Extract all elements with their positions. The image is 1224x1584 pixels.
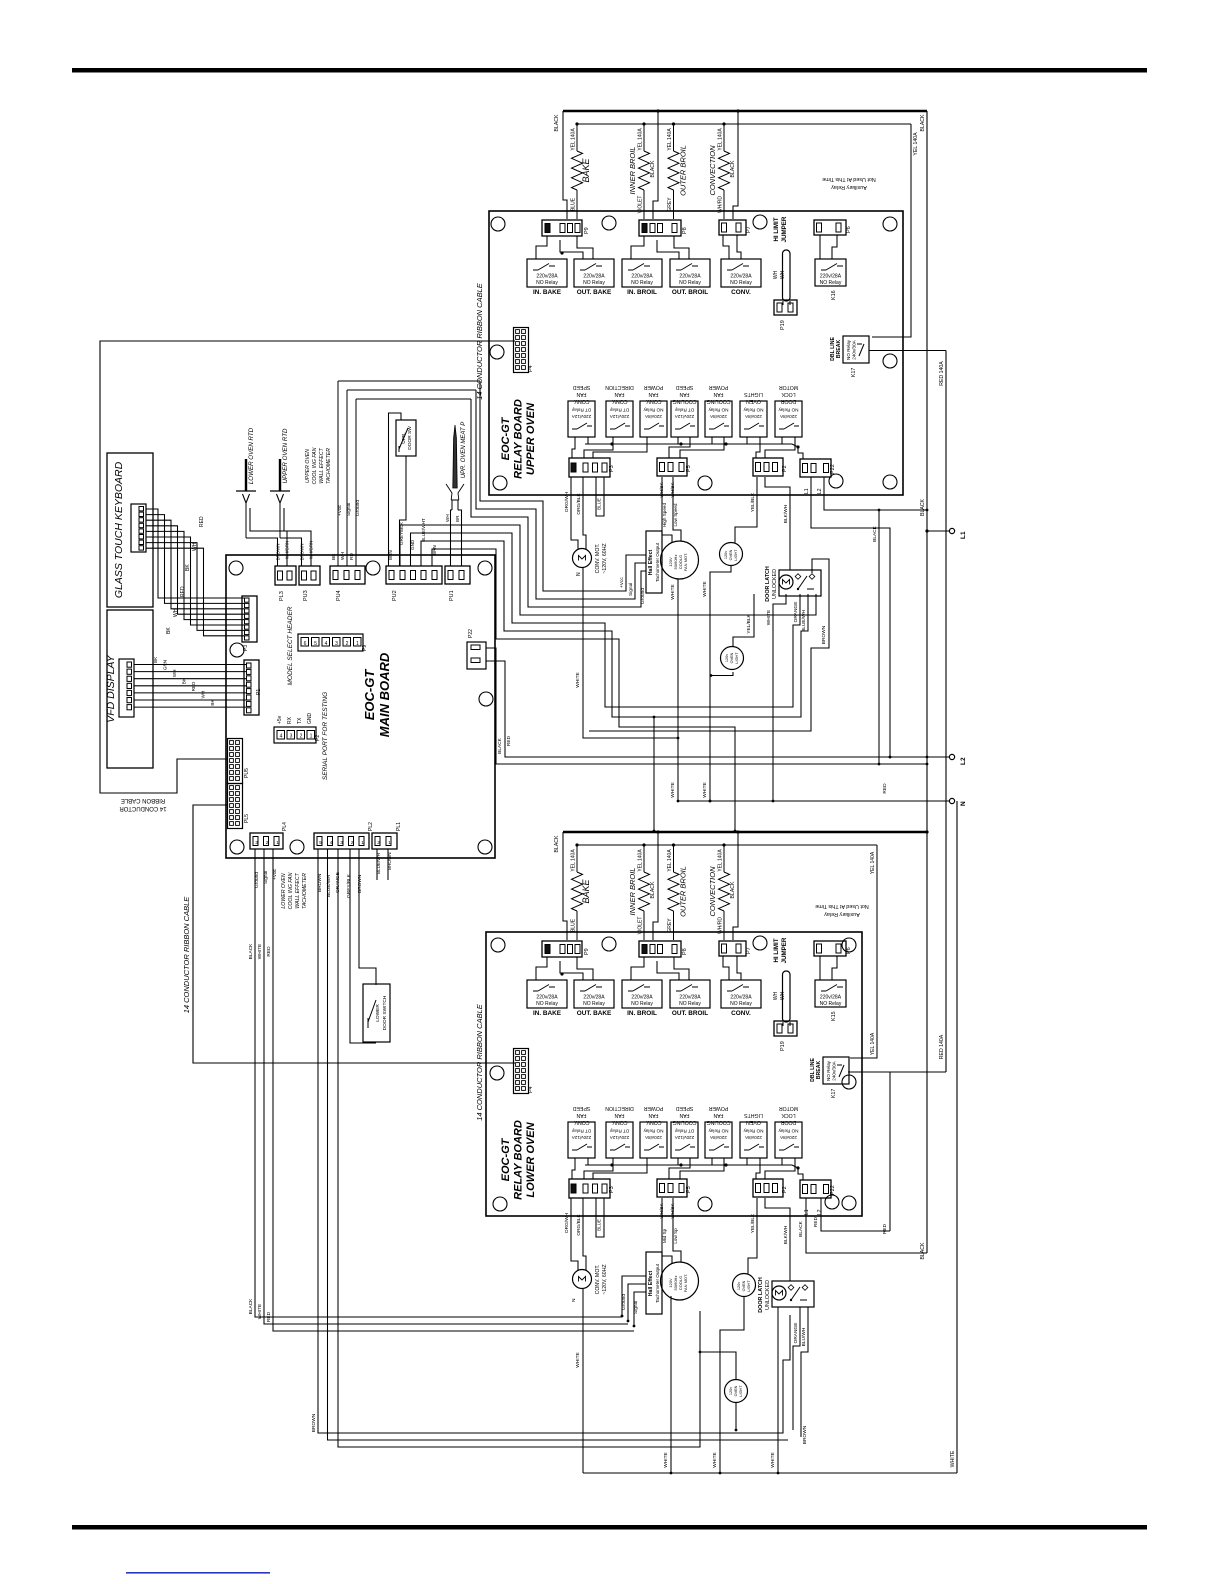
- svg-text:BAKE: BAKE: [581, 157, 591, 182]
- svg-text:Auxiliary Relay: Auxiliary Relay: [824, 911, 860, 917]
- svg-text:FAN: FAN: [576, 1112, 586, 1118]
- wire P22 main red: [486, 661, 949, 757]
- svg-text:WHITE: WHITE: [702, 782, 708, 797]
- svg-text:WHITE: WHITE: [702, 581, 708, 596]
- wire door sw loop: [389, 413, 402, 566]
- wires keyboard to P3 main: [146, 509, 244, 598]
- svg-text:Not Used At This Time: Not Used At This Time: [822, 176, 876, 182]
- svg-text:120v: 120v: [724, 551, 728, 559]
- svg-text:+Vdc: +Vdc: [272, 868, 278, 880]
- svg-text:MOTOR: MOTOR: [779, 384, 798, 390]
- relay COOLING FAN POWER (upper): [705, 401, 732, 437]
- svg-text:P3: P3: [243, 645, 249, 651]
- svg-text:UNLOCKED: UNLOCKED: [765, 1280, 771, 1310]
- hi limit jumper bar (upper): [783, 250, 791, 301]
- svg-text:ORG/WH: ORG/WH: [564, 491, 570, 512]
- wire light2 bottom (upper): [711, 672, 733, 676]
- svg-text:NO Relay: NO Relay: [583, 1001, 605, 1007]
- svg-text:220v/8A: 220v/8A: [779, 1135, 797, 1140]
- svg-text:220v/12A: 220v/12A: [674, 414, 694, 419]
- svg-text:Signal: Signal: [346, 503, 352, 516]
- wire door latch white (upper): [773, 594, 786, 801]
- svg-text:220v/28A: 220v/28A: [679, 274, 701, 280]
- svg-text:NO Relay: NO Relay: [643, 1129, 664, 1134]
- relay CONV. FAN SPEED (lower): [568, 1122, 595, 1158]
- RTD probe UPPER OVEN RTD: [279, 459, 281, 491]
- svg-text:FAN: FAN: [648, 391, 658, 397]
- svg-text:YEL 140A: YEL 140A: [718, 849, 724, 872]
- svg-text:+Vcc: +Vcc: [619, 577, 625, 588]
- relay OUT. BROIL (lower): [670, 980, 710, 1008]
- svg-text:UPPER OVEN: UPPER OVEN: [305, 449, 311, 483]
- svg-text:COOL ING FAN: COOL ING FAN: [312, 447, 318, 484]
- svg-text:BLACK: BLACK: [650, 881, 656, 899]
- svg-text:CONV.: CONV.: [646, 398, 662, 404]
- wire N bus: [678, 800, 949, 802]
- svg-text:BLUE/WH: BLUE/WH: [376, 853, 381, 874]
- relay OVEN LIGHTS (upper): [740, 401, 767, 437]
- svg-text:BK: BK: [166, 627, 172, 634]
- svg-text:BROWN: BROWN: [311, 1413, 317, 1432]
- connector P9 (lower): [542, 941, 582, 957]
- svg-text:BLU/WH: BLU/WH: [801, 1327, 807, 1346]
- svg-text:P8: P8: [682, 948, 688, 955]
- terminal L2: [949, 754, 954, 759]
- svg-text:P6: P6: [846, 947, 852, 954]
- svg-text:VFD DISPLAY: VFD DISPLAY: [105, 654, 117, 722]
- svg-text:Ground: Ground: [355, 500, 361, 516]
- relay CONV. (lower): [721, 980, 761, 1008]
- svg-text:6: 6: [304, 641, 307, 647]
- svg-text:220v/28A: 220v/28A: [730, 274, 752, 280]
- svg-text:BAKE: BAKE: [581, 878, 591, 903]
- connector P4 (lower): [514, 1049, 529, 1094]
- svg-text:BLACK: BLACK: [554, 835, 560, 853]
- resistor element CONVECTION (lower): [723, 845, 725, 872]
- wire PL2 grey/blk to door switch bottom: [350, 849, 376, 1043]
- svg-text:NO Relay: NO Relay: [536, 1001, 558, 1007]
- svg-text:PL1: PL1: [396, 822, 402, 831]
- svg-text:TACHOMETER: TACHOMETER: [326, 448, 332, 484]
- svg-text:WH/BK: WH/BK: [659, 1203, 664, 1219]
- svg-text:NO Relay: NO Relay: [708, 408, 729, 413]
- svg-text:240v/30A: 240v/30A: [852, 339, 857, 359]
- svg-text:GREY: GREY: [667, 918, 673, 933]
- svg-text:14 CONDUCTOR RIBBON CABLE: 14 CONDUCTOR RIBBON CABLE: [182, 896, 191, 1014]
- svg-text:YEL/BLK: YEL/BLK: [750, 492, 756, 512]
- wire RED 140A vertical x=946: [945, 351, 947, 1073]
- junction dots L2 line: [889, 756, 892, 759]
- svg-text:BROWN: BROWN: [821, 625, 827, 644]
- svg-text:P4: P4: [528, 1086, 534, 1093]
- svg-text:BRN: BRN: [388, 550, 393, 560]
- svg-text:CONVECTION: CONVECTION: [708, 145, 717, 196]
- svg-text:LOWER: LOWER: [375, 1004, 381, 1022]
- wire BLUE loop (lower): [596, 1198, 604, 1237]
- svg-text:RED 140A: RED 140A: [939, 361, 945, 386]
- svg-text:CONV.: CONV.: [646, 1119, 662, 1125]
- svg-text:BLUE/WHT: BLUE/WHT: [421, 518, 426, 542]
- svg-text:BK: BK: [210, 699, 215, 706]
- svg-text:YEL 140A: YEL 140A: [913, 132, 919, 156]
- svg-text:GREY/BLK: GREY/BLK: [346, 873, 352, 898]
- relay DOOR LOCK MOTOR (upper): [775, 401, 802, 437]
- svg-text:1: 1: [388, 840, 391, 845]
- svg-text:CONV.: CONV.: [574, 398, 590, 404]
- svg-text:L1: L1: [960, 531, 967, 539]
- svg-text:TACHOMETER: TACHOMETER: [302, 873, 308, 909]
- wires P3 to conv motor (lower): [571, 1198, 578, 1270]
- svg-text:5: 5: [314, 641, 317, 647]
- connector P9 (upper): [542, 220, 582, 236]
- svg-text:4: 4: [280, 734, 283, 740]
- wire main black bus (lower): [563, 831, 927, 834]
- connector PU5: [228, 739, 243, 784]
- svg-text:220v/12A: 220v/12A: [609, 414, 629, 419]
- wire white latch (lower): [777, 1307, 779, 1473]
- wire white from fan (upper): [677, 579, 679, 801]
- svg-text:PU3: PU3: [303, 590, 309, 601]
- svg-text:NO Relay: NO Relay: [679, 1001, 701, 1007]
- svg-text:WH/BK: WH/BK: [670, 1203, 675, 1219]
- svg-text:RED: RED: [266, 946, 272, 957]
- svg-text:WH/BK: WH/BK: [659, 482, 664, 498]
- UPR DOOR SW box: [396, 420, 416, 456]
- connector PL3: [275, 566, 296, 585]
- connector P4 (upper): [514, 328, 529, 373]
- svg-text:P22: P22: [830, 464, 836, 474]
- svg-text:220v/28A: 220v/28A: [631, 274, 653, 280]
- resistor element INNER BROIL (upper): [643, 124, 645, 151]
- svg-text:WH/GRN: WH/GRN: [309, 541, 314, 559]
- svg-text:WH: WH: [340, 551, 346, 560]
- svg-text:2: 2: [300, 734, 303, 740]
- connector PU2: [386, 566, 442, 584]
- svg-text:ORG/WH: ORG/WH: [564, 1212, 570, 1233]
- svg-text:LIGHT: LIGHT: [747, 1280, 751, 1292]
- connector P22 (upper): [800, 459, 831, 477]
- svg-text:MODEL SELECT HEADER: MODEL SELECT HEADER: [287, 606, 294, 685]
- wire stair feeder 735: [432, 549, 735, 831]
- svg-text:CONV.: CONV.: [612, 1119, 628, 1125]
- relay IN. BROIL (lower): [622, 980, 662, 1008]
- wire P9 to IN.BAKE (lower): [536, 957, 547, 980]
- svg-text:OUT. BAKE: OUT. BAKE: [577, 289, 612, 296]
- svg-text:BLUE/WH: BLUE/WH: [326, 875, 332, 897]
- svg-text:BLACK: BLACK: [650, 160, 656, 178]
- svg-text:3: 3: [340, 840, 343, 845]
- wire main black bus (upper): [563, 110, 927, 113]
- wire K17 upper output: [869, 350, 946, 352]
- oven light 2 (upper): [721, 647, 744, 670]
- svg-text:YEL 140A: YEL 140A: [667, 849, 673, 872]
- svg-text:NO Relay: NO Relay: [643, 408, 664, 413]
- relay OUT. BAKE (lower): [574, 980, 614, 1008]
- relay IN. BAKE (lower): [527, 980, 567, 1008]
- connector P5 (upper): [657, 458, 687, 476]
- wire UPPER OVEN RTD to PU3: [280, 538, 302, 566]
- door latch motor (upper): [779, 575, 793, 589]
- hi limit jumper bar (lower): [783, 971, 791, 1022]
- svg-text:N: N: [960, 801, 967, 806]
- svg-text:WH: WH: [192, 542, 198, 551]
- wire P9 to OUT.BAKE (upper): [577, 236, 593, 259]
- wire light2 wires (lower): [700, 1352, 736, 1379]
- door latch box (lower): [772, 1281, 814, 1307]
- connector P5 (lower): [657, 1179, 687, 1197]
- wire PL2 blue/wh run 2: [328, 849, 789, 1440]
- wire L1 black bus vertical x=927: [926, 111, 928, 1253]
- svg-text:Ground: Ground: [254, 872, 260, 888]
- svg-text:14 CONDUCTOR: 14 CONDUCTOR: [119, 805, 167, 811]
- relay K15 (lower): [815, 980, 846, 1007]
- svg-text:Signal: Signal: [633, 1301, 639, 1314]
- svg-text:YEL/BLK: YEL/BLK: [750, 1213, 756, 1233]
- wire row2 relay stubs (lower): [572, 1158, 575, 1179]
- connector P2 (upper): [753, 458, 783, 476]
- relay IN. BROIL (upper): [622, 259, 662, 287]
- svg-text:SPEED: SPEED: [572, 384, 590, 390]
- svg-text:BLACK: BLACK: [554, 114, 560, 132]
- svg-text:OVEN: OVEN: [729, 549, 733, 560]
- svg-text:FAN MOT.: FAN MOT.: [683, 553, 688, 571]
- mounting holes relay board lower: [491, 938, 505, 952]
- door latch motor (lower): [772, 1286, 786, 1300]
- svg-text:P6: P6: [846, 226, 852, 233]
- svg-text:FAN MOT.: FAN MOT.: [683, 1274, 688, 1292]
- svg-text:UPPER OVEN RTD: UPPER OVEN RTD: [282, 428, 289, 483]
- svg-text:UPR. OVEN MEAT P: UPR. OVEN MEAT P: [461, 422, 467, 479]
- svg-text:P1: P1: [256, 689, 262, 695]
- connector PL1: [372, 833, 397, 849]
- wire stair latch path 3: [421, 541, 808, 717]
- connector P6 (upper): [814, 220, 846, 235]
- svg-text:INNER BROIL: INNER BROIL: [628, 868, 637, 916]
- connector P9 model select: [298, 634, 363, 651]
- wire right riser black: [878, 510, 880, 764]
- svg-text:RED: RED: [199, 516, 205, 527]
- wire 14 conductor ribbon cable lower loop: [193, 805, 515, 1063]
- svg-text:SPEED: SPEED: [572, 1105, 590, 1111]
- conv motor (lower): [573, 1270, 592, 1289]
- svg-text:220v/8A: 220v/8A: [709, 1135, 727, 1140]
- svg-text:NO Relay: NO Relay: [743, 1129, 764, 1134]
- wire white bus bottom: [583, 1472, 957, 1474]
- svg-text:240v/30A: 240v/30A: [832, 1060, 837, 1080]
- svg-text:Not Used At This Time: Not Used At This Time: [815, 903, 869, 909]
- svg-text:YEL 140A: YEL 140A: [638, 849, 644, 872]
- glass touch keyboard box: [107, 453, 153, 607]
- footer hyperlink underline: [126, 1572, 270, 1574]
- conv motor (upper): [573, 549, 592, 568]
- relay CONV. FAN SPEED (upper): [568, 401, 595, 437]
- svg-text:HI LIMIT: HI LIMIT: [773, 217, 780, 241]
- svg-text:BLACK: BLACK: [920, 1242, 926, 1260]
- relay OVEN LIGHTS (lower): [740, 1122, 767, 1158]
- svg-text:NO Relay: NO Relay: [743, 408, 764, 413]
- wire K17 lower output: [848, 1071, 946, 1073]
- svg-text:LOWER OVEN: LOWER OVEN: [281, 873, 287, 908]
- svg-text:JUMPER: JUMPER: [781, 216, 788, 242]
- relay COOLING FAN POWER (lower): [705, 1122, 732, 1158]
- svg-text:OUT. BROIL: OUT. BROIL: [672, 1010, 708, 1017]
- connector PL2: [314, 833, 369, 849]
- mounting holes main board: [229, 561, 243, 575]
- oven light 1 (upper): [720, 543, 743, 566]
- svg-text:NO Relay: NO Relay: [631, 280, 653, 286]
- svg-text:RED: RED: [882, 1223, 888, 1234]
- door latch box (upper): [779, 570, 821, 596]
- svg-text:L1: L1: [804, 1209, 810, 1215]
- svg-text:DIRECTION: DIRECTION: [605, 384, 634, 390]
- svg-text:L1: L1: [804, 488, 810, 494]
- wire P8 to IN.BROIL (upper): [631, 236, 644, 259]
- svg-text:BREAK: BREAK: [836, 340, 842, 359]
- RTD probe LOWER OVEN RTD: [245, 459, 247, 491]
- svg-text:LOCK: LOCK: [781, 391, 796, 397]
- svg-text:14 CONDUCTOR RIBBON CABLE: 14 CONDUCTOR RIBBON CABLE: [475, 1003, 484, 1121]
- svg-text:OVEN: OVEN: [742, 1280, 746, 1291]
- svg-text:LIGHT: LIGHT: [734, 549, 738, 561]
- svg-text:IN. BROIL: IN. BROIL: [627, 289, 657, 296]
- terminal N: [949, 798, 954, 803]
- svg-text:LIGHT: LIGHT: [739, 1385, 743, 1397]
- svg-text:BLK/WH: BLK/WH: [783, 504, 789, 523]
- svg-text:WHITE: WHITE: [257, 1304, 263, 1319]
- svg-text:N: N: [571, 1298, 577, 1302]
- svg-text:Signal: Signal: [628, 583, 634, 596]
- wire stair latch path 2: [411, 533, 801, 707]
- wires P3 to conv motor (upper): [571, 477, 578, 549]
- svg-text:RED: RED: [882, 783, 888, 794]
- wire lower black to hall: [621, 1277, 623, 1288]
- wire P8 to OUT.BROIL (upper): [674, 236, 689, 259]
- svg-text:220v/8A: 220v/8A: [709, 414, 727, 419]
- svg-text:YEL 140A: YEL 140A: [638, 128, 644, 151]
- svg-text:TX: TX: [297, 717, 303, 724]
- svg-text:OUTER BROIL: OUTER BROIL: [679, 866, 688, 917]
- svg-text:220v/28A: 220v/28A: [730, 995, 752, 1001]
- wire P22 upper L1 red: [811, 477, 890, 757]
- wire PL2 brown to door switch top: [359, 849, 376, 985]
- svg-text:2: 2: [266, 840, 269, 845]
- svg-text:YEL 140A: YEL 140A: [667, 128, 673, 151]
- VFD connector: [119, 659, 134, 717]
- svg-text:SERIAL PORT FOR TESTING: SERIAL PORT FOR TESTING: [322, 692, 329, 780]
- svg-text:P8: P8: [682, 227, 688, 234]
- svg-text:CONV. MOT.: CONV. MOT.: [595, 1265, 601, 1295]
- svg-text:BLUE: BLUE: [571, 197, 577, 211]
- svg-text:220v/8A: 220v/8A: [779, 414, 797, 419]
- svg-text:220v/12A: 220v/12A: [571, 1135, 591, 1140]
- svg-text:BLK/WH: BLK/WH: [783, 1225, 789, 1244]
- junction N dots: [709, 800, 712, 803]
- svg-text:Auxiliary Relay: Auxiliary Relay: [831, 184, 867, 190]
- svg-text:N: N: [576, 572, 582, 576]
- svg-text:OUTER BROIL: OUTER BROIL: [679, 145, 688, 196]
- svg-text:EOC-GT: EOC-GT: [500, 1137, 512, 1181]
- svg-text:RD: RD: [349, 553, 355, 560]
- svg-text:YEL 140A: YEL 140A: [718, 128, 724, 151]
- svg-text:BROWN: BROWN: [300, 544, 305, 561]
- resistor element INNER BROIL (lower): [643, 845, 645, 872]
- svg-text:220v/12A: 220v/12A: [609, 1135, 629, 1140]
- svg-text:WH: WH: [201, 691, 206, 699]
- svg-text:PL2: PL2: [368, 822, 374, 831]
- svg-text:ORANGE: ORANGE: [793, 602, 799, 623]
- wire convection return (lower): [733, 832, 738, 940]
- wire tach Signal: [346, 390, 348, 566]
- svg-text:220v/28A: 220v/28A: [583, 995, 605, 1001]
- svg-text:220v/28A: 220v/28A: [820, 274, 842, 280]
- svg-text:P2: P2: [782, 1186, 788, 1193]
- svg-text:DOOR SWITCH: DOOR SWITCH: [382, 995, 388, 1030]
- wire P7 to CONV (upper): [723, 235, 729, 259]
- svg-text:NO Relay: NO Relay: [708, 1129, 729, 1134]
- svg-text:WH: WH: [172, 670, 177, 678]
- top horizontal rule: [72, 68, 1147, 73]
- wire P6 to K15 (lower): [819, 956, 821, 980]
- resistor element BAKE (lower): [576, 845, 578, 872]
- svg-text:L2: L2: [817, 488, 823, 494]
- svg-text:WHITE: WHITE: [766, 610, 772, 625]
- wires P5 to fan (upper): [662, 477, 672, 543]
- svg-text:Hall Effect: Hall Effect: [648, 550, 654, 576]
- relay COOLING FAN SPEED (upper): [671, 401, 698, 437]
- svg-text:BRN: BRN: [432, 545, 437, 555]
- svg-text:120v: 120v: [725, 654, 729, 662]
- svg-text:UNLOCKED: UNLOCKED: [772, 569, 778, 599]
- wire white from conv motor (lower): [582, 1288, 584, 1473]
- connector P6 (lower): [814, 941, 846, 956]
- junction lower bus to L1 bus: [925, 830, 928, 833]
- wire P7 to CONV (lower): [723, 956, 729, 980]
- wires door latch outputs (lower): [793, 1307, 800, 1430]
- wire P2 to light1 (lower): [748, 1198, 757, 1274]
- connector PU3: [299, 566, 320, 585]
- wire P9 to IN.BAKE (upper): [536, 236, 547, 259]
- wire P8 to IN.BROIL (lower): [631, 957, 644, 980]
- EOC-GT relay board lower outline: [486, 932, 862, 1216]
- svg-text:GREY: GREY: [667, 197, 673, 212]
- svg-text:NO Relay: NO Relay: [679, 280, 701, 286]
- svg-text:3: 3: [255, 840, 258, 845]
- wire feeder 654: [653, 717, 655, 831]
- svg-text:P9: P9: [362, 645, 368, 651]
- connector P2 (lower): [753, 1179, 783, 1197]
- svg-text:WALL EFFECT: WALL EFFECT: [295, 872, 301, 908]
- svg-text:BK: BK: [331, 553, 337, 560]
- svg-text:120v: 120v: [737, 1282, 741, 1290]
- wires hall effect (lower): [622, 1276, 646, 1316]
- svg-text:POWER: POWER: [708, 1105, 728, 1111]
- svg-text:WH: WH: [780, 991, 786, 1000]
- svg-text:WH: WH: [773, 270, 779, 279]
- svg-text:POWER: POWER: [643, 384, 663, 390]
- svg-text:P22: P22: [468, 629, 474, 638]
- wire broil return (lower): [653, 832, 658, 940]
- relay COOLING FAN SPEED (lower): [671, 1122, 698, 1158]
- svg-text:RED: RED: [191, 681, 196, 691]
- relay K16 (upper): [815, 259, 846, 286]
- svg-text:YEL 140A: YEL 140A: [870, 851, 876, 874]
- connector P2 serial: [274, 727, 316, 743]
- svg-text:DOOR: DOOR: [780, 1119, 796, 1125]
- svg-text:BLACK: BLACK: [248, 1298, 254, 1315]
- svg-text:BLUE/WH: BLUE/WH: [801, 610, 807, 632]
- wire light2 top (upper): [733, 594, 754, 647]
- svg-text:COOL ING FAN: COOL ING FAN: [288, 872, 294, 909]
